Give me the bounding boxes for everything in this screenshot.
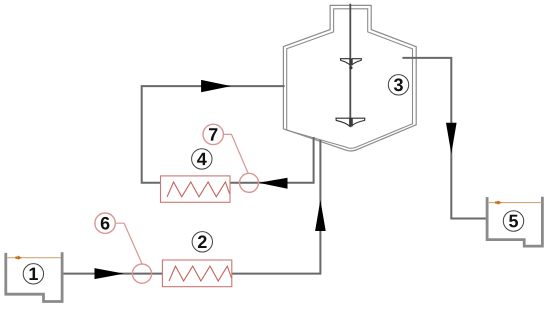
- valve circle 7 on recycle line: [240, 173, 259, 192]
- reactor vessel V-3 inner wall: [287, 9, 413, 149]
- label circle 1: [23, 264, 43, 284]
- pipe: tank1 outlet to heat exchanger E-2: [62, 273, 162, 275]
- agitator upper impeller: [341, 59, 362, 65]
- heat exchanger E-4 body: [161, 176, 231, 202]
- label circle 5: [503, 211, 523, 231]
- reactor vessel V-3 outer wall: [283, 5, 416, 151]
- pipe: E-4 outlet up and into reactor top: [142, 86, 285, 183]
- flow arrow pointing down to tank 5: [446, 123, 457, 154]
- tank T-1 walls: [6, 252, 62, 301]
- agitator shaft hub dot: [349, 66, 352, 69]
- label circle 2: [192, 232, 212, 252]
- label circle 6: [95, 213, 115, 233]
- agitator upper impeller hub: [350, 59, 353, 65]
- tank T-5 liquid level line: [488, 202, 542, 204]
- heat exchanger E-2 body: [162, 260, 231, 287]
- leader line from label 6 to valve 6: [115, 223, 142, 264]
- tank T-5 walls: [487, 197, 542, 246]
- tank T-1 liquid level marker: [15, 256, 22, 260]
- pipe: reactor outlet to tank 5: [402, 58, 487, 219]
- flow arrow pointing left toward valve 7: [259, 178, 288, 189]
- agitator shaft: [349, 4, 351, 127]
- leader line from label 7 to valve 7: [223, 134, 248, 173]
- pipe: E-2 to reactor riser: [232, 140, 321, 274]
- tank T-5 liquid level marker: [495, 200, 502, 204]
- label circle 7: [203, 124, 223, 144]
- label circle 3: [388, 75, 408, 95]
- agitator lower impeller hub: [349, 118, 352, 126]
- flow arrow on tank1 outlet: [95, 268, 125, 279]
- tank T-1 liquid level line: [7, 257, 61, 259]
- flow arrow up into reactor: [315, 200, 326, 231]
- pipe: reactor bottom recycle down to valve 7 line: [161, 137, 314, 183]
- heat exchanger E-4 coil zigzag: [167, 182, 230, 197]
- flow arrow pointing right into reactor: [201, 80, 231, 92]
- label circle 4: [192, 149, 212, 169]
- valve circle 6 on feed line: [132, 264, 151, 283]
- heat exchanger E-2 coil zigzag: [169, 266, 232, 281]
- agitator lower impeller: [336, 118, 365, 126]
